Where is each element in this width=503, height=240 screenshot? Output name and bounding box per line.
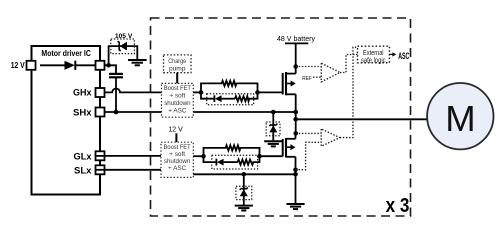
- node boot junction: [106, 63, 111, 68]
- ground main source: [286, 204, 304, 209]
- wire 105V clamp loop: [109, 46, 138, 65]
- ground 105V clamp: [128, 60, 147, 65]
- node gate net right low: [257, 154, 262, 159]
- pin 12V input: [11, 61, 36, 70]
- outer dashed boundary box: [151, 18, 411, 216]
- ground SLx clamp: [235, 206, 253, 211]
- optional diode-resistor box low: [212, 155, 258, 169]
- wire SHx phase line: [105, 111, 296, 113]
- svg-text:shutdown: shutdown: [164, 100, 191, 107]
- zener diode SLx clamp: [236, 174, 252, 205]
- svg-text:ASC: ASC: [398, 50, 409, 61]
- diode D3 high: [201, 92, 235, 102]
- 12 V supply stub: [168, 125, 182, 143]
- diode D1 reverse protection: [40, 61, 96, 70]
- wire through SLx pin: [96, 169, 104, 171]
- comparator U3 low: [296, 129, 340, 170]
- pin GLx: [74, 151, 105, 162]
- svg-text:+ ASC: + ASC: [168, 107, 187, 114]
- svg-text:12 V: 12 V: [11, 61, 26, 70]
- node battery sense tap: [293, 64, 298, 69]
- ground zener clamp phase: [264, 141, 282, 146]
- node gate net left low: [201, 154, 206, 159]
- pin SLx: [74, 165, 105, 176]
- resistor R4 low: [238, 156, 260, 165]
- node SLx return junction: [293, 172, 298, 177]
- node zener clamp tap: [271, 110, 276, 115]
- svg-text:105 V: 105 V: [115, 33, 133, 40]
- wire boost out high: [193, 91, 201, 93]
- wire comparator U3 output: [340, 47, 358, 137]
- 48 V battery node: [277, 34, 315, 43]
- wire through GLx pin: [96, 155, 104, 157]
- svg-text:shutdown: shutdown: [164, 158, 191, 165]
- diode D5 low: [204, 156, 238, 165]
- svg-text:12 V: 12 V: [168, 125, 182, 134]
- label x 3: [386, 195, 410, 217]
- external safe logic block: [358, 46, 390, 64]
- wire GLx to boost block: [96, 155, 161, 157]
- node lower comp plus tap: [293, 131, 298, 136]
- MOSFET Q2 low side: [283, 133, 296, 203]
- wire GHx with hop over cap: [105, 89, 162, 93]
- optional diode-resistor box high: [207, 94, 254, 105]
- pin boot supply (top): [96, 61, 105, 70]
- charge pump block: [164, 55, 192, 73]
- resistor R3 low gate: [204, 145, 260, 156]
- svg-text:REF: REF: [302, 76, 312, 82]
- wire motor line: [296, 118, 427, 120]
- svg-text:pump: pump: [169, 65, 186, 72]
- svg-text:+ ASC: + ASC: [168, 165, 187, 172]
- node SLx zener tap: [242, 172, 247, 177]
- wire boost out low: [193, 155, 203, 157]
- svg-text:M: M: [445, 98, 475, 139]
- svg-text:SHx: SHx: [73, 107, 92, 118]
- svg-text:GLx: GLx: [74, 151, 93, 162]
- svg-text:safe logic: safe logic: [361, 55, 386, 64]
- svg-text:SLx: SLx: [74, 165, 92, 176]
- pin GHx: [73, 88, 105, 99]
- svg-text:+ soft: + soft: [169, 92, 185, 99]
- svg-text:x 3: x 3: [386, 195, 410, 217]
- node source sense tap: [293, 167, 298, 172]
- zener diode 105 V: [111, 33, 135, 53]
- ASC output arrow: [389, 50, 409, 61]
- bootstrap capacitor C1: [109, 74, 123, 112]
- svg-text:Boost FET: Boost FET: [164, 85, 191, 92]
- wire boot node: [105, 65, 117, 73]
- node gate net left high: [199, 90, 204, 95]
- svg-text:GHx: GHx: [73, 88, 92, 99]
- wire SLx return: [193, 173, 295, 175]
- pin SHx: [73, 107, 105, 118]
- node cap to SHx: [114, 110, 119, 115]
- wire comparator U2 output: [340, 55, 358, 73]
- motor M1: [427, 83, 493, 149]
- node phase junction: [293, 110, 298, 115]
- wire SLx to boost block: [96, 169, 161, 171]
- node gate net right high: [255, 90, 260, 95]
- node motor branch: [293, 117, 298, 122]
- motor driver IC U1: [32, 46, 101, 195]
- svg-text:Charge: Charge: [168, 58, 186, 65]
- boost FET block low side: [161, 142, 193, 177]
- wire gate high: [258, 91, 283, 93]
- resistor R2 high: [235, 92, 258, 101]
- wire charge pump to boost block: [176, 73, 178, 84]
- wire gate low: [260, 155, 283, 157]
- zener diode clamp phase: [266, 112, 280, 141]
- svg-text:Motor driver IC: Motor driver IC: [41, 49, 91, 58]
- boost FET block high side: [162, 83, 194, 117]
- MOSFET Q1 high side: [283, 43, 296, 133]
- resistor R1 high gate: [201, 81, 258, 93]
- svg-text:48 V battery: 48 V battery: [277, 34, 315, 43]
- comparator U2 high: [296, 63, 340, 82]
